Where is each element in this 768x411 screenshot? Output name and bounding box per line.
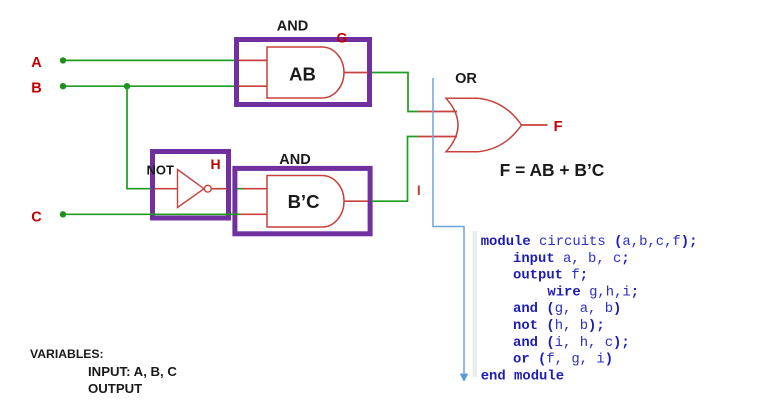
svg-text:INPUT: A, B, C: INPUT: A, B, C <box>88 364 177 379</box>
block box (AND gate AB enclosure) <box>237 40 370 105</box>
node terminal C (dot) <box>60 211 66 217</box>
annotation arrowhead <box>460 374 467 381</box>
not-gate bubble <box>204 185 211 192</box>
wire NOT input stub (red inside NOT box) <box>155 188 178 190</box>
svg-text:H: H <box>210 156 220 172</box>
svg-text:A: A <box>31 55 42 71</box>
and-gate B'C symbol <box>267 176 344 228</box>
svg-text:B’C: B’C <box>288 191 320 212</box>
wire C red stub into B'C gate <box>240 213 267 215</box>
wire A (green from terminal A to AB box) <box>63 59 235 61</box>
wire B (green from terminal B to AB box) <box>63 85 235 87</box>
block box (AND gate B'C enclosure) <box>235 168 370 233</box>
svg-text:F: F <box>554 119 563 135</box>
svg-text:AND: AND <box>279 152 310 168</box>
svg-text:not (h, b);: not (h, b); <box>513 318 605 334</box>
svg-text:and (i, h, c);: and (i, h, c); <box>513 335 630 351</box>
wire H net into B'C box (red) <box>242 188 267 190</box>
wire AB input stub B (red inside box) <box>239 85 267 87</box>
wire joint green segment H net <box>237 188 243 190</box>
wire AB input stub A (red inside box) <box>239 59 267 61</box>
svg-text:module circuits (a,b,c,f);: module circuits (a,b,c,f); <box>481 234 698 250</box>
block box (NOT gate enclosure) <box>153 152 229 219</box>
or-gate symbol <box>446 98 522 152</box>
wire B branch down to NOT input <box>127 86 151 189</box>
node terminal B (dot) <box>60 83 66 89</box>
svg-text:B: B <box>31 81 41 97</box>
svg-text:wire g,h,i;: wire g,h,i; <box>547 284 639 300</box>
wire AB gate output red stub <box>344 72 368 74</box>
svg-text:end module: end module <box>481 368 564 384</box>
svg-text:OUTPUT: OUTPUT <box>88 381 142 396</box>
node terminal A (dot) <box>60 57 66 63</box>
wire red stub into OR top input <box>418 111 457 113</box>
svg-text:output f;: output f; <box>513 268 588 284</box>
and-gate AB symbol <box>267 47 344 98</box>
wire C (green from terminal C across NOT box to B'C box) <box>63 213 240 215</box>
svg-text:or (f, g, i): or (f, g, i) <box>513 352 613 368</box>
svg-text:I: I <box>417 182 421 198</box>
node junction on B (dot) <box>124 83 130 89</box>
svg-text:input a, b, c;: input a, b, c; <box>513 251 630 267</box>
svg-text:and (g, a, b): and (g, a, b) <box>513 301 621 317</box>
svg-text:F = AB + B’C: F = AB + B’C <box>500 160 605 180</box>
code panel gray strip <box>473 231 478 377</box>
not-gate triangle <box>178 170 205 208</box>
wire B'C gate output red stub <box>344 200 368 202</box>
svg-text:C: C <box>31 210 42 226</box>
wire net G (green from AB box to OR input) <box>372 73 420 112</box>
svg-text:VARIABLES:: VARIABLES: <box>30 347 104 361</box>
wire NOT output to B'C gate (red with green joint) <box>211 188 227 190</box>
svg-text:NOT: NOT <box>147 163 175 178</box>
wire OR output to F <box>522 124 548 126</box>
wire red stub into OR bottom input <box>418 136 457 138</box>
svg-text:AND: AND <box>277 19 308 35</box>
wire net I (green from B'C box up to OR input) <box>372 137 420 202</box>
svg-text:G: G <box>337 30 348 46</box>
svg-text:OR: OR <box>455 71 477 87</box>
annotation arrow (light blue polyline with arrowhead) <box>433 78 464 376</box>
svg-text:AB: AB <box>289 64 316 85</box>
